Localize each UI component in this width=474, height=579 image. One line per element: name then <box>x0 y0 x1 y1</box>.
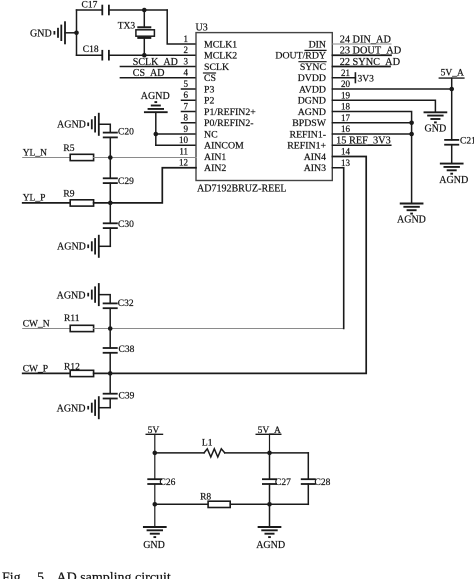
svg-text:C38: C38 <box>119 345 135 355</box>
svg-text:GND: GND <box>30 28 52 39</box>
wire AGND to C20 <box>99 124 111 132</box>
capacitor C27 <box>263 453 291 504</box>
svg-text:5V_A: 5V_A <box>441 69 464 79</box>
wire CW_N to R11 <box>23 328 70 330</box>
svg-text:DOUT/RDY: DOUT/RDY <box>275 51 326 62</box>
wire pin17 BPDSW <box>332 113 411 123</box>
svg-text:C20: C20 <box>118 127 134 137</box>
svg-text:18: 18 <box>341 102 351 112</box>
resistor R12 <box>64 362 94 376</box>
svg-text:AIN1: AIN1 <box>204 152 226 163</box>
ground AGND bottom <box>256 504 285 551</box>
capacitor C38 <box>104 329 135 374</box>
wire YL_N to R5 <box>23 157 70 159</box>
svg-text:22 SYNC_AD: 22 SYNC_AD <box>340 57 401 68</box>
svg-text:U3: U3 <box>196 23 208 34</box>
overline SYNC <box>299 61 326 63</box>
net label CS_AD pin4 <box>120 68 196 79</box>
node CW_P junction <box>108 371 113 376</box>
wire R11 to pin13 AIN3 <box>94 328 344 330</box>
node 5V_A junction <box>449 87 454 92</box>
svg-text:AIN2: AIN2 <box>204 163 226 174</box>
node pin16 junction <box>409 132 414 137</box>
ground AGND above C20 <box>57 114 99 135</box>
node 5V junction <box>153 451 158 456</box>
node YL_N junction <box>108 155 113 160</box>
overline CS <box>204 72 216 74</box>
svg-text:AGND: AGND <box>439 175 468 186</box>
wire C18 branch to pin2 <box>77 54 197 56</box>
svg-text:8: 8 <box>184 113 189 123</box>
svg-text:P0/REFIN2-: P0/REFIN2- <box>204 118 254 129</box>
svg-text:R9: R9 <box>63 189 74 199</box>
svg-text:NC: NC <box>204 129 218 140</box>
svg-text:C39: C39 <box>119 391 135 401</box>
svg-text:AGND: AGND <box>57 290 86 301</box>
svg-text:23 DOUT_AD: 23 DOUT_AD <box>340 46 402 57</box>
resistor R8 <box>155 493 308 508</box>
wire AGND to C32 <box>99 295 110 304</box>
node 5V_A bottom junction <box>267 451 272 456</box>
svg-text:GND: GND <box>143 540 165 551</box>
caption Fig. 5 AD sampling circuit <box>2 570 171 579</box>
svg-text:3: 3 <box>184 57 189 67</box>
wire CW_P to R12 <box>23 372 70 374</box>
wire R12 to pin14 AIN4 <box>94 157 367 374</box>
wire C17 top branch <box>77 9 168 11</box>
capacitor C26 <box>148 453 175 504</box>
ground AGND below pin18 tie <box>397 204 426 226</box>
svg-text:SCLK_AD: SCLK_AD <box>133 57 178 68</box>
node C27 R8 junction <box>267 502 272 507</box>
wire to pin1 <box>167 10 196 44</box>
svg-text:11: 11 <box>179 147 188 157</box>
capacitor C32 <box>104 299 134 309</box>
ground AGND above pin9 <box>141 91 170 112</box>
wire R9 to pin12 AIN2 <box>94 168 196 203</box>
wire pin19 DGND to GND <box>332 91 435 113</box>
svg-text:P3: P3 <box>204 84 214 95</box>
node pin9 junction <box>154 132 159 137</box>
capacitor C17 <box>82 1 109 15</box>
svg-text:Fig.: Fig. <box>2 570 24 579</box>
svg-text:P2: P2 <box>204 96 214 107</box>
ground AGND above C32 <box>57 284 99 305</box>
svg-text:AGND: AGND <box>298 107 326 118</box>
svg-text:14: 14 <box>341 147 351 157</box>
IC left pin names <box>204 39 256 174</box>
svg-text:AIN3: AIN3 <box>304 163 326 174</box>
wire pin6 stub <box>182 99 197 101</box>
wire R5 to pin11 AIN1 <box>94 157 196 159</box>
ground AGND below C21 <box>439 164 468 186</box>
node pin17 junction <box>409 120 414 125</box>
net label DIN_AD pin24 <box>332 34 391 45</box>
capacitor C39 <box>104 373 135 407</box>
net label SCLK_AD pin3 <box>120 57 196 68</box>
svg-text:DIN: DIN <box>309 39 326 50</box>
wire YL_P to R9 <box>23 202 70 204</box>
capacitor C18 <box>83 45 109 60</box>
svg-text:21: 21 <box>341 68 350 78</box>
svg-text:R12: R12 <box>64 362 80 372</box>
net label DOUT_AD pin23 <box>332 46 401 57</box>
wire C32 to CW_N node <box>109 308 111 328</box>
resistor R5 <box>63 144 93 161</box>
svg-text:AVDD: AVDD <box>299 84 326 95</box>
svg-text:AIN4: AIN4 <box>304 152 326 163</box>
svg-text:12: 12 <box>179 158 188 168</box>
svg-text:C21: C21 <box>460 137 474 147</box>
svg-text:REFIN1-: REFIN1- <box>290 129 326 140</box>
overline RDY <box>305 49 326 51</box>
svg-text:15 REF_3V3: 15 REF_3V3 <box>336 136 391 147</box>
node crystal bottom junction <box>142 53 147 58</box>
svg-text:9: 9 <box>184 124 189 134</box>
svg-text:C32: C32 <box>118 299 134 309</box>
svg-text:17: 17 <box>341 113 351 123</box>
pin numbers left 1-12 <box>179 34 189 168</box>
wire pin7 stub <box>182 111 197 113</box>
node C26 R8 junction <box>153 502 158 507</box>
svg-text:1: 1 <box>184 34 189 44</box>
node CW_N junction <box>108 326 113 331</box>
wire left rail C17/C18 <box>76 10 78 55</box>
svg-text:DVDD: DVDD <box>298 73 326 84</box>
power label 5V_A bottom <box>256 426 281 453</box>
svg-text:GND: GND <box>425 124 447 135</box>
svg-text:5: 5 <box>184 79 189 89</box>
svg-text:4: 4 <box>184 68 189 78</box>
power label 5V_A top right <box>439 69 464 140</box>
svg-text:AGND: AGND <box>57 403 86 414</box>
svg-text:C26: C26 <box>160 478 176 488</box>
svg-text:AINCOM: AINCOM <box>204 141 244 152</box>
svg-text:C17: C17 <box>82 1 98 11</box>
ground AGND below C39 <box>57 397 111 418</box>
capacitor C20 <box>104 127 134 137</box>
svg-text:MCLK1: MCLK1 <box>204 39 237 50</box>
svg-text:CS: CS <box>204 73 216 84</box>
svg-text:L1: L1 <box>202 438 213 448</box>
svg-text:MCLK2: MCLK2 <box>204 51 237 62</box>
ground AGND below C30 <box>57 236 110 257</box>
resistor R11 <box>64 314 94 332</box>
svg-text:2: 2 <box>184 45 189 55</box>
svg-text:7: 7 <box>184 102 189 112</box>
svg-text:AD sampling circuit: AD sampling circuit <box>57 570 171 579</box>
capacitor C21 <box>445 137 474 164</box>
wire pin16 REFIN1- <box>332 124 411 134</box>
net label SYNC_AD pin22 <box>332 57 400 68</box>
svg-text:DGND: DGND <box>298 96 326 107</box>
svg-text:AGND: AGND <box>397 214 426 225</box>
wire pin8 stub <box>182 122 197 124</box>
resistor R9 <box>63 189 93 206</box>
svg-text:SYNC: SYNC <box>300 62 326 73</box>
svg-text:AGND: AGND <box>256 540 285 551</box>
IC U3 body <box>196 33 332 181</box>
node YL_P junction <box>108 201 113 206</box>
svg-text:CS_AD: CS_AD <box>133 68 165 79</box>
svg-text:3V3: 3V3 <box>358 74 375 84</box>
svg-text:TX3: TX3 <box>118 21 136 31</box>
svg-text:AGND: AGND <box>141 91 170 102</box>
svg-text:SCLK: SCLK <box>204 62 229 73</box>
svg-text:REFIN1+: REFIN1+ <box>287 141 326 152</box>
svg-text:YL_N: YL_N <box>23 148 47 158</box>
svg-text:19: 19 <box>341 91 351 101</box>
svg-text:24 DIN_AD: 24 DIN_AD <box>340 34 392 45</box>
node GND tap junction <box>74 31 79 36</box>
wire pin20 AVDD to 5V_A rail <box>332 79 451 89</box>
wire pin18 AGND tie <box>332 102 411 204</box>
svg-text:20: 20 <box>341 79 351 89</box>
svg-text:AGND: AGND <box>57 119 86 130</box>
capacitor C30 <box>104 203 134 246</box>
ground GND bottom <box>143 504 166 551</box>
ground GND below pin19 <box>425 112 447 134</box>
crystal TX3 <box>118 10 155 55</box>
wire AGND to pin9 pin10 <box>156 112 196 145</box>
node crystal top junction <box>142 8 147 13</box>
svg-text:16: 16 <box>341 124 351 134</box>
net label REF_3V3 pin15 <box>332 136 391 147</box>
svg-text:P1/REFIN2+: P1/REFIN2+ <box>204 107 256 118</box>
svg-text:C28: C28 <box>315 478 331 488</box>
svg-text:C29: C29 <box>118 177 134 187</box>
capacitor C28 <box>302 453 331 504</box>
power label 5V bottom <box>146 426 162 453</box>
svg-text:R5: R5 <box>63 144 74 154</box>
inductor L1 <box>155 438 308 457</box>
IC right pin names <box>275 39 326 174</box>
svg-text:R11: R11 <box>64 314 80 324</box>
svg-text:AD7192BRUZ-REEL: AD7192BRUZ-REEL <box>197 184 286 195</box>
svg-text:10: 10 <box>179 135 189 145</box>
svg-text:AGND: AGND <box>57 242 86 253</box>
wire C20 to YL_N node <box>109 137 111 157</box>
power port 3V3 pin21 <box>332 68 374 84</box>
svg-text:13: 13 <box>341 158 351 168</box>
wire pin5 stub <box>182 88 197 90</box>
svg-text:C30: C30 <box>118 220 134 230</box>
svg-text:5: 5 <box>37 570 44 579</box>
svg-text:C27: C27 <box>275 478 291 488</box>
capacitor C29 <box>104 158 134 203</box>
ground GND top-left <box>30 22 77 43</box>
svg-text:C18: C18 <box>83 45 99 55</box>
svg-text:6: 6 <box>184 90 189 100</box>
svg-text:BPDSW: BPDSW <box>292 118 327 129</box>
